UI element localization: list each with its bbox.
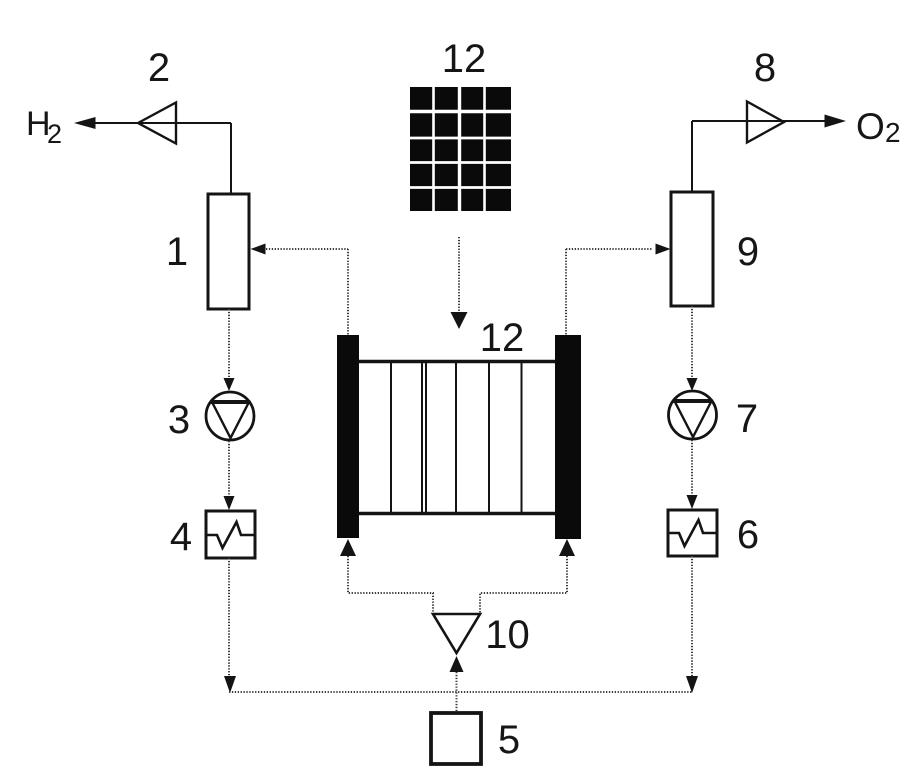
funnel 10 (433, 614, 480, 653)
left end plate (337, 335, 359, 538)
electrolyser stack 12 (337, 335, 581, 539)
arrow into funnel 10 (450, 656, 464, 672)
wire H2 riser from separator 1 (230, 123, 232, 194)
arrow onto bottom header right (686, 676, 698, 693)
arrow into heat exchanger 6 (687, 495, 698, 509)
wire pump 3 to heat exchanger 4 (228, 441, 230, 496)
svg-text:6: 6 (737, 513, 759, 557)
arrow into pump 3 (224, 378, 235, 391)
wire tank 5 to funnel 10 (456, 672, 458, 713)
gas cooler 2 (triangle) (138, 103, 176, 144)
arrow into stack top (451, 312, 468, 329)
svg-text:2: 2 (885, 117, 901, 148)
arrow into stack bottom left (340, 539, 356, 556)
heat exchanger 6 (668, 510, 717, 556)
arrow into separator 1 (251, 244, 266, 255)
arrow into stack bottom right (559, 539, 575, 556)
svg-text:2: 2 (47, 119, 62, 149)
wire stack top left to separator 1 (347, 249, 349, 336)
wire funnel to stack bottom right (480, 556, 567, 613)
svg-text:9: 9 (737, 230, 759, 274)
arrow into heat exchanger 4 (224, 496, 235, 510)
wire O2 outlet horizontal (692, 120, 830, 122)
stack bottom line (359, 512, 555, 516)
arrow into separator 9 (656, 244, 671, 255)
svg-text:12: 12 (442, 37, 487, 81)
svg-text:O: O (856, 106, 885, 147)
svg-text:2: 2 (148, 46, 170, 90)
svg-text:7: 7 (736, 397, 758, 441)
arrow onto bottom header left (224, 676, 236, 693)
wire separator 9 to pump 7 (691, 306, 693, 378)
svg-text:4: 4 (170, 515, 192, 559)
pump 7 (669, 391, 717, 439)
svg-text:8: 8 (754, 46, 776, 90)
svg-text:3: 3 (168, 398, 190, 442)
wire heat exchanger 6 to bottom header (691, 556, 693, 676)
svg-text:5: 5 (498, 718, 520, 762)
wire funnel to stack bottom left (348, 556, 433, 613)
separator vessel 1 (208, 194, 249, 309)
wire H2 outlet horizontal (90, 122, 231, 124)
wire O2 riser from separator 9 (691, 121, 693, 192)
separator vessel 9 (671, 192, 713, 306)
svg-text:12: 12 (480, 316, 525, 360)
gas cooler 8 (triangle) (747, 102, 784, 143)
arrow O2 out (825, 115, 847, 128)
heat exchanger 4 (206, 511, 255, 558)
wire separator 1 to pump 3 (228, 309, 230, 378)
wire heat exchanger 4 to bottom header (228, 558, 230, 676)
arrow H2 out (74, 117, 96, 129)
cell dividers (390, 363, 392, 512)
svg-text:1: 1 (166, 230, 188, 274)
svg-text:10: 10 (485, 613, 530, 657)
right end plate (555, 335, 581, 539)
water tank 5 (431, 713, 481, 764)
solar panel 12 (410, 87, 511, 211)
wire solar panel to stack (458, 237, 460, 313)
arrow into pump 7 (687, 378, 698, 391)
bottom header wire (229, 691, 692, 693)
wire pump 7 to heat exchanger 6 (691, 440, 693, 495)
stack top line (359, 360, 555, 364)
wire stack top right to separator 9 (565, 249, 567, 336)
pump 3 (206, 392, 254, 440)
